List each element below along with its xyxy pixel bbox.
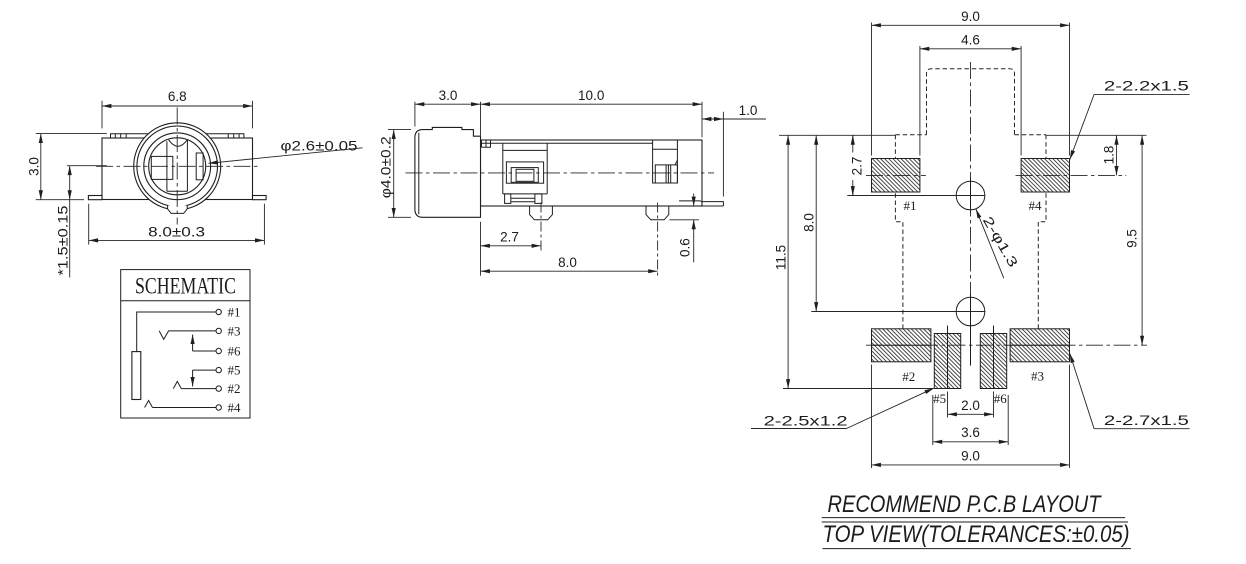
svg-text:2-2.2x1.5: 2-2.2x1.5 <box>1104 79 1189 94</box>
top notch bump <box>169 140 188 147</box>
dim 9.5 right <box>1141 135 1143 345</box>
hole top phi1.3 <box>956 181 985 210</box>
horizontal centerline <box>96 165 259 167</box>
pad #3 <box>1010 329 1069 362</box>
dim 11.5 left <box>783 388 933 390</box>
pin 4 wire with caret <box>145 401 216 408</box>
left contact <box>151 156 173 179</box>
housing legs <box>505 194 511 204</box>
rear solder foot <box>646 206 669 220</box>
vertical centerline <box>176 108 178 225</box>
svg-text:#2: #2 <box>228 381 241 396</box>
svg-text:#5: #5 <box>933 391 946 406</box>
pin terminals <box>216 309 221 314</box>
barrel inner wall <box>418 133 420 215</box>
svg-text:9.5: 9.5 <box>1125 229 1140 248</box>
rear contact <box>653 140 678 183</box>
svg-text:3.6: 3.6 <box>961 425 980 440</box>
dim *1.5±0.15 <box>67 165 107 167</box>
pad #5 <box>934 334 960 389</box>
hole bottom phi1.3 <box>956 297 985 326</box>
dim 3.0 <box>415 102 481 137</box>
sleeve bar <box>132 352 141 400</box>
pad 6 center tick <box>993 326 995 389</box>
svg-text:#4: #4 <box>228 400 242 415</box>
pin 2 wire with caret <box>173 381 216 388</box>
svg-text:2-φ1.3: 2-φ1.3 <box>980 214 1021 270</box>
svg-text:#1: #1 <box>904 198 917 213</box>
front solder foot <box>530 206 553 220</box>
dim 1.0 <box>723 112 766 197</box>
footprint barrel outline dashed <box>927 69 1015 135</box>
pad #1 <box>872 159 920 193</box>
pad #4 <box>1021 159 1069 193</box>
pin 6 wire with arrow <box>193 350 216 352</box>
footprint body outline dashed <box>895 134 1046 136</box>
dim 2.7 left <box>852 135 854 195</box>
svg-text:8.0: 8.0 <box>558 255 577 270</box>
vertical centerline <box>970 62 972 330</box>
smt lead tab <box>679 201 723 206</box>
dim 9.0 top <box>872 23 1070 156</box>
dim 2.0 <box>948 392 994 418</box>
svg-text:2.0: 2.0 <box>961 398 980 413</box>
leader phi2.6±0.05 <box>209 148 363 164</box>
contact housing <box>503 143 547 194</box>
svg-text:#6: #6 <box>994 391 1008 406</box>
top-left latch <box>482 140 491 147</box>
dim 2.7 <box>481 245 542 247</box>
svg-text:8.0±0.3: 8.0±0.3 <box>148 224 205 239</box>
foot centerline rear <box>657 203 659 276</box>
svg-text:2-2.7x1.5: 2-2.7x1.5 <box>1104 413 1189 428</box>
svg-text:RECOMMEND P.C.B LAYOUT: RECOMMEND P.C.B LAYOUT <box>828 491 1103 518</box>
svg-text:4.6: 4.6 <box>961 33 980 48</box>
dim 4.6 <box>920 46 1021 156</box>
pad #2 <box>872 329 931 362</box>
leader 2-2.5x1.2 <box>751 428 847 430</box>
leader 2-2.2x1.5 <box>1094 93 1190 95</box>
svg-text:#6: #6 <box>228 344 242 359</box>
svg-text:φ2.6±0.05: φ2.6±0.05 <box>281 139 358 154</box>
svg-text:1.0: 1.0 <box>739 103 758 118</box>
hole crosslines <box>811 196 985 312</box>
svg-text:10.0: 10.0 <box>578 88 604 103</box>
foot centerline front <box>540 203 542 251</box>
svg-text:2-2.5x1.2: 2-2.5x1.2 <box>764 414 848 429</box>
svg-text:φ4.0±0.2: φ4.0±0.2 <box>379 136 394 198</box>
dim 8.0 left <box>815 135 817 311</box>
top edge extension lines <box>779 134 1147 136</box>
svg-text:#3: #3 <box>1031 369 1044 384</box>
horizontal centerline <box>406 172 715 174</box>
pin 3 wire with switch V <box>159 331 216 339</box>
right top rim tab <box>207 134 244 138</box>
svg-text:9.0: 9.0 <box>961 448 980 463</box>
schematic frame <box>121 270 250 418</box>
dim 1.8 right <box>1116 135 1118 175</box>
center tick below lower hole <box>970 326 972 366</box>
svg-text:*1.5±0.15: *1.5±0.15 <box>56 206 71 276</box>
svg-text:8.0: 8.0 <box>802 213 817 232</box>
svg-text:2.7: 2.7 <box>850 157 865 176</box>
dim 3.6 <box>933 395 1008 445</box>
dim 6.8 <box>102 101 253 129</box>
svg-text:#1: #1 <box>228 305 241 320</box>
svg-text:3.0: 3.0 <box>439 88 458 103</box>
svg-text:#4: #4 <box>1029 198 1043 213</box>
front face ring <box>144 133 211 200</box>
svg-text:1.8: 1.8 <box>1102 146 1117 165</box>
svg-text:SCHEMATIC: SCHEMATIC <box>135 274 236 299</box>
svg-text:0.6: 0.6 <box>678 238 693 257</box>
body side <box>481 140 703 206</box>
center channel <box>167 140 188 191</box>
bottom pads centerline <box>866 344 1147 346</box>
left top rim tab <box>111 134 148 138</box>
connector body front <box>102 138 253 200</box>
svg-text:#3: #3 <box>228 323 241 338</box>
svg-text:6.8: 6.8 <box>168 89 187 104</box>
dim 8.0 <box>480 222 482 276</box>
leader 2-phi1.3 <box>976 209 1004 278</box>
pad 5 center tick <box>947 326 949 389</box>
pad #6 <box>980 334 1006 389</box>
top pads centerline <box>866 174 1126 176</box>
hole center ticks <box>970 178 972 330</box>
barrel outer circle <box>134 123 221 210</box>
dim phi4.0±0.2 <box>388 130 411 218</box>
dim 8.0±0.3 <box>89 204 265 245</box>
svg-text:TOP VIEW(TOLERANCES:±0.05): TOP VIEW(TOLERANCES:±0.05) <box>823 521 1130 548</box>
svg-text:#2: #2 <box>902 369 915 384</box>
dim 3.0 <box>36 134 107 200</box>
barrel ring 2 <box>137 126 218 207</box>
bore circle phi2.6 <box>149 138 206 195</box>
svg-text:9.0: 9.0 <box>961 9 980 24</box>
dim 0.6 <box>670 219 700 221</box>
right mounting foot <box>253 196 267 200</box>
svg-text:3.0: 3.0 <box>27 157 42 176</box>
body top second line <box>481 142 653 144</box>
dim 9.0 bottom <box>872 365 1070 469</box>
svg-text:2.7: 2.7 <box>500 230 519 245</box>
left mounting foot <box>88 196 102 200</box>
dim 10.0 <box>701 102 703 138</box>
pin 1 wire <box>137 312 216 352</box>
barrel side <box>415 127 481 217</box>
leader 2-2.7x1.5 <box>1094 428 1190 430</box>
right contact <box>196 153 203 180</box>
bottom boss tab <box>168 206 188 214</box>
pin 5 wire with arrow <box>193 369 216 371</box>
svg-text:#5: #5 <box>228 363 241 378</box>
svg-text:11.5: 11.5 <box>774 245 789 270</box>
